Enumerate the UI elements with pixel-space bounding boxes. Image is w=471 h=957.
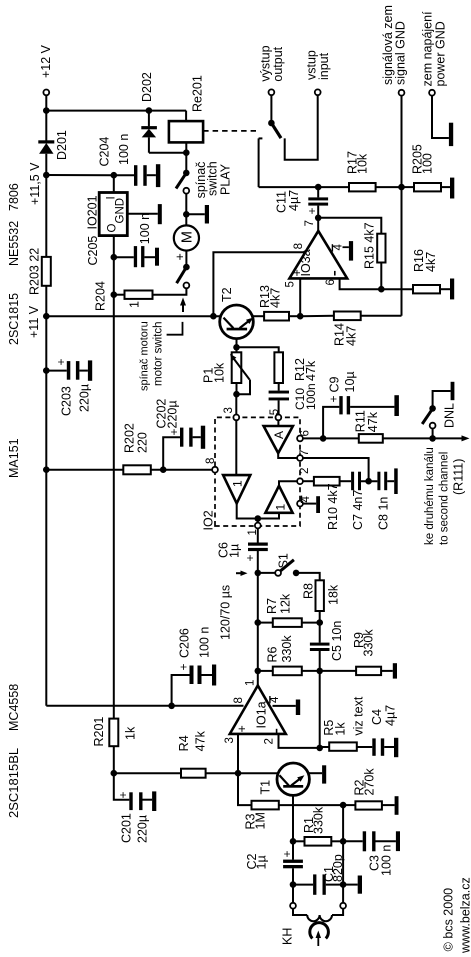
wire rail +11V segment <box>45 286 47 706</box>
junction out/R15fb <box>315 215 322 222</box>
svg-text:R8: R8 <box>302 583 316 599</box>
junction T1 collector node <box>235 770 242 777</box>
terminal vystup output <box>269 89 275 95</box>
svg-text:C8 1n: C8 1n <box>377 497 391 530</box>
resistor R13 <box>264 312 289 321</box>
svg-text:+: + <box>327 395 341 402</box>
ground C9 <box>394 395 399 416</box>
junction rail/R204 <box>111 291 118 298</box>
wire node to PLAY switch <box>185 153 187 173</box>
junction rail/relay feed <box>43 107 50 114</box>
wire node row <box>342 805 344 885</box>
wire R3 to node row <box>279 804 343 806</box>
svg-text:D201: D201 <box>55 130 69 160</box>
junction DNL switch tap <box>429 435 436 442</box>
wire R1 top <box>293 840 305 842</box>
wire IO201 drop <box>46 174 114 176</box>
ground C202 <box>201 426 205 449</box>
junction rail/R202 <box>43 466 50 473</box>
ground PLAY switch <box>186 213 205 215</box>
pointer motor switch label <box>167 322 183 335</box>
junction D202 tap <box>146 107 153 114</box>
svg-text:6: 6 <box>300 430 312 436</box>
capacitor C201 <box>129 792 132 810</box>
wire R202 line <box>46 469 123 471</box>
svg-text:R204: R204 <box>94 281 108 311</box>
svg-text:18k: 18k <box>327 584 341 605</box>
resistor R205 <box>414 183 441 191</box>
junction base/R1 <box>290 838 297 845</box>
switch PLAY lever <box>176 173 186 189</box>
wire +12V terminal to D201 <box>45 95 47 140</box>
svg-text:R4: R4 <box>177 735 191 751</box>
junction pin8/C206 <box>168 703 175 710</box>
wire R205 stubs <box>402 186 415 188</box>
capacitor C206 <box>172 675 190 706</box>
ground C3 <box>396 831 400 851</box>
svg-text:330k: 330k <box>312 806 326 834</box>
resistor R7 <box>273 618 302 627</box>
junction rail/T2 drop <box>43 313 50 320</box>
svg-text:+: + <box>235 725 249 732</box>
inductor KH coil <box>293 909 307 915</box>
junction rail/IO201 drop <box>43 172 50 179</box>
wire switch2 to R204 <box>153 288 187 294</box>
wire node to IO1a pin3 <box>237 734 239 773</box>
diode D202 <box>148 111 150 127</box>
ground node row <box>343 884 358 886</box>
switch S1 contact dot <box>293 570 300 577</box>
resistor R1 <box>305 837 332 846</box>
wire R8 to S1 <box>296 573 320 580</box>
wire 1a out <box>237 503 258 518</box>
wire T1 collector <box>238 772 278 774</box>
wire bias to C201 <box>114 773 130 800</box>
wire T1 emitter <box>309 772 322 774</box>
wire R16 top <box>381 288 413 290</box>
junction node row R2 <box>340 802 347 809</box>
capacitor C11 <box>308 203 328 206</box>
svg-text:R7: R7 <box>265 598 279 614</box>
ground IO2 pin4 <box>303 503 316 505</box>
resistor R4 <box>181 769 206 778</box>
svg-text:+11,5 V: +11,5 V <box>28 162 42 205</box>
svg-text:spínač motoru: spínač motoru <box>139 321 151 391</box>
capacitor C6 <box>248 548 268 551</box>
svg-text:IO2: IO2 <box>202 510 216 530</box>
pin 6 IO2 <box>297 436 303 442</box>
wire T2 collector <box>46 315 220 317</box>
svg-text:+: + <box>290 269 304 276</box>
svg-text:1: 1 <box>247 529 259 535</box>
ground T1 emitter <box>322 765 326 783</box>
resistor R5 <box>329 742 357 750</box>
wire R2 bottom <box>382 804 395 806</box>
resistor R17 <box>349 183 376 191</box>
svg-text:input: input <box>317 52 331 80</box>
junction relay/switch node <box>183 149 190 156</box>
switch motor lever <box>177 267 187 283</box>
wire R6 stubs <box>258 670 273 672</box>
wire output riser <box>259 186 349 188</box>
svg-text:1M: 1M <box>254 812 268 829</box>
wire R10 to C7 <box>340 480 352 482</box>
wire feedback rail <box>319 651 321 748</box>
svg-text:C201: C201 <box>120 813 134 843</box>
svg-text:100 n: 100 n <box>198 627 212 658</box>
svg-text:C5 10n: C5 10n <box>330 621 344 661</box>
IC IO2 dashed box <box>215 417 300 526</box>
wire pin5 to A <box>277 420 279 426</box>
terminal vstup input <box>315 89 321 95</box>
pin 1 IO2 <box>255 523 261 529</box>
svg-text:4k7: 4k7 <box>345 326 359 346</box>
resistor R2 <box>355 801 382 809</box>
potentiometer P1 <box>232 352 242 383</box>
svg-text:C4: C4 <box>370 709 384 725</box>
ground C206 <box>212 665 216 686</box>
terminal signal GND <box>399 90 405 96</box>
wire D202 to switch node <box>149 152 186 154</box>
svg-text:270k: 270k <box>363 768 377 796</box>
relay contact dot <box>268 120 275 127</box>
wire signal gnd rail <box>401 96 403 316</box>
resistor R6 <box>273 667 302 676</box>
wire R13 bottom <box>289 315 300 317</box>
wire S1 to main <box>258 572 275 574</box>
svg-text:C206: C206 <box>178 628 192 658</box>
motor M <box>174 225 199 250</box>
svg-text:220: 220 <box>136 432 150 453</box>
junction T2 line dot A <box>210 313 217 320</box>
wire relay feed from +12V <box>46 110 186 112</box>
svg-text:+: + <box>280 850 294 857</box>
svg-text:1k: 1k <box>334 722 348 736</box>
terminal KH bottom <box>340 903 346 909</box>
arrow DNL line end <box>462 435 470 441</box>
svg-text:R201: R201 <box>92 717 106 747</box>
junction rail/C203 <box>43 367 50 374</box>
svg-text:DNL: DNL <box>443 403 457 428</box>
junction C2/C1 node <box>290 881 297 888</box>
resistor R202 <box>123 465 151 474</box>
junction motor switch dot <box>183 264 190 271</box>
switch S1 open contact <box>275 570 281 576</box>
svg-text:+: + <box>54 358 68 365</box>
svg-text:8: 8 <box>233 697 245 703</box>
svg-text:4µ7: 4µ7 <box>287 190 301 211</box>
svg-text:8: 8 <box>293 243 305 249</box>
wire relay right to feed <box>185 111 187 122</box>
svg-text:1: 1 <box>128 301 142 308</box>
svg-text:10µ: 10µ <box>343 371 357 392</box>
diode D201 <box>38 140 54 143</box>
amp block 1a IO2 <box>223 475 250 503</box>
svg-text:R10 4k7: R10 4k7 <box>326 483 340 530</box>
svg-text:IO201: IO201 <box>86 195 100 229</box>
wire R204 top <box>114 294 125 296</box>
svg-text:100: 100 <box>421 153 435 174</box>
switch DNL contact dot <box>429 405 436 412</box>
junction base/P1/R12 <box>233 344 240 351</box>
junction out node <box>315 184 322 191</box>
wire pin5 line <box>299 278 301 316</box>
junction PLAY gnd node <box>183 211 190 218</box>
amp block A IO2 <box>264 426 293 453</box>
resistor R203 <box>42 257 51 286</box>
svg-text:to second channel: to second channel <box>439 452 451 545</box>
wire IO3a output <box>317 206 319 231</box>
svg-text:10k: 10k <box>213 362 227 383</box>
resistor R16 <box>413 285 440 293</box>
svg-text:GND: GND <box>115 198 127 224</box>
ground C8 <box>387 480 394 482</box>
junction main/C6/S1 <box>254 570 261 577</box>
svg-text:C9: C9 <box>328 376 342 392</box>
ground C205 <box>155 248 159 266</box>
svg-text:12k: 12k <box>279 593 293 614</box>
wire pin7 jog <box>303 458 369 481</box>
resistor R9 wire <box>320 670 356 672</box>
junction 1a/1b/pin1 <box>254 515 261 522</box>
svg-text:C205: C205 <box>86 236 100 266</box>
wire A out <box>278 453 297 458</box>
svg-text:+: + <box>177 663 191 670</box>
svg-text:2SC1815BL: 2SC1815BL <box>6 748 21 818</box>
svg-text:4k7: 4k7 <box>269 288 283 308</box>
svg-text:47k: 47k <box>304 360 318 381</box>
ground R2 <box>395 796 399 815</box>
svg-text:R6: R6 <box>266 646 280 662</box>
wire rail to bias node <box>113 746 115 773</box>
svg-text:+: + <box>167 428 181 435</box>
capacitor C10 <box>278 383 280 391</box>
wire NC contact to input <box>285 95 318 160</box>
transistor T2 <box>220 305 254 339</box>
svg-text:4: 4 <box>269 696 281 703</box>
wire T1 base <box>292 795 294 841</box>
resistor R3 <box>252 801 279 810</box>
junction node row C3 <box>340 838 347 845</box>
wire R12 jog <box>237 347 279 352</box>
svg-text:5: 5 <box>285 281 297 287</box>
wire IO1a output <box>257 551 259 686</box>
capacitor C2 <box>292 841 294 859</box>
junction R202/C202 <box>160 466 167 473</box>
wire R15 to output <box>318 218 381 234</box>
wire R17 bottom <box>376 186 402 188</box>
svg-text:PLAY: PLAY <box>219 163 233 195</box>
svg-text:1: 1 <box>231 480 245 487</box>
wire R4 line bottom <box>206 772 238 774</box>
wire motor to switch2 <box>185 251 187 268</box>
wire R15 left <box>380 263 382 290</box>
op-amp IO3a <box>289 231 347 279</box>
terminal power GND <box>429 90 435 96</box>
svg-text:+: + <box>305 207 319 214</box>
svg-text:R203 22: R203 22 <box>27 248 41 295</box>
junction C204/IO201 input <box>111 172 118 179</box>
junction bias node <box>111 770 118 777</box>
wire IO1a pin2 <box>279 734 320 748</box>
arrow motor-switch link <box>182 303 184 313</box>
capacitor C5 <box>310 648 330 651</box>
ground IO201 gnd pin <box>127 213 158 215</box>
svg-text:motor switch: motor switch <box>153 321 165 386</box>
svg-text:100n: 100n <box>304 383 318 410</box>
ground R9 <box>381 670 393 672</box>
capacitor C1 <box>293 884 313 886</box>
junction C9 tap <box>320 435 327 442</box>
svg-text:7806: 7806 <box>7 183 21 211</box>
svg-text:(R111): (R111) <box>452 459 466 495</box>
svg-text:NE5532: NE5532 <box>7 221 21 266</box>
svg-text:3: 3 <box>223 407 235 413</box>
svg-text:330k: 330k <box>362 629 376 657</box>
svg-text:R202: R202 <box>123 423 137 453</box>
svg-text:3: 3 <box>224 737 236 743</box>
svg-text:O: O <box>107 224 119 233</box>
svg-text:MC4558: MC4558 <box>7 684 21 731</box>
wire IO1a pin8 supply <box>46 705 243 707</box>
junction node row C1 <box>340 881 347 888</box>
junction node B <box>297 313 304 320</box>
svg-text:C204: C204 <box>98 137 112 167</box>
label IO3a minus <box>334 271 336 276</box>
wire R4 line top <box>114 772 181 774</box>
svg-text:S1: S1 <box>277 553 291 568</box>
wire relay left to node <box>185 142 187 152</box>
capacitor C203 <box>67 361 71 380</box>
junction pin7/C7/C8 <box>365 478 372 485</box>
svg-text:100 n: 100 n <box>138 213 152 244</box>
wire into IO201 input <box>113 175 115 192</box>
svg-text:www.belza.cz: www.belza.cz <box>459 877 471 954</box>
svg-text:I: I <box>106 196 118 199</box>
wire KH bottom <box>342 885 344 903</box>
resistor R10 <box>314 477 340 486</box>
relay contact lever <box>271 123 281 138</box>
ground R16 <box>440 288 450 290</box>
svg-text:1: 1 <box>274 504 288 511</box>
resistor R15 <box>377 234 385 263</box>
wire pin3 to 1a <box>235 420 237 475</box>
wire to relay NO contact <box>258 138 260 187</box>
svg-text:zem napájení: zem napájení <box>421 11 435 87</box>
svg-text:1k: 1k <box>124 726 138 740</box>
wire rail +11.5V segment <box>45 154 47 257</box>
svg-text:ke druhému kanálu: ke druhému kanálu <box>424 447 436 545</box>
svg-text:2: 2 <box>299 468 311 474</box>
amp block 1b IO2 <box>265 486 292 513</box>
ground R205 <box>441 186 450 188</box>
ground C201 <box>152 791 156 811</box>
wire pin2 chain top <box>303 480 314 482</box>
capacitor C3 <box>343 840 363 842</box>
wire T2 emitter <box>253 315 264 317</box>
pin 5 IO2 <box>276 415 282 421</box>
junction rail/R17/R205 <box>398 184 405 191</box>
resistor R11 <box>359 434 383 443</box>
svg-text:R15 4k7: R15 4k7 <box>363 222 377 269</box>
pin 8 IO2 <box>212 467 218 473</box>
switch PLAY open contact <box>183 188 189 194</box>
svg-text:M: M <box>179 231 195 243</box>
svg-text:MA151: MA151 <box>7 438 21 478</box>
resistor R204 <box>125 291 153 299</box>
capacitor C202 <box>163 437 180 470</box>
resistor R201 <box>109 719 118 747</box>
svg-text:4µ7: 4µ7 <box>383 705 397 726</box>
regulator IO201 box <box>99 193 127 236</box>
wire to DNL switch <box>432 429 434 439</box>
svg-text:100 n: 100 n <box>117 134 131 165</box>
wire to IO3a pin8 <box>213 252 305 316</box>
transistor T1 <box>277 763 309 795</box>
wire C7 to C8 <box>361 480 377 482</box>
svg-text:+: + <box>116 791 130 798</box>
junction rail/C205 <box>111 254 118 261</box>
svg-text:D202: D202 <box>140 72 154 102</box>
svg-text:T1: T1 <box>259 780 273 795</box>
svg-text:© bcs 2000: © bcs 2000 <box>442 888 456 951</box>
svg-text:220µ: 220µ <box>136 815 150 843</box>
svg-text:1µ: 1µ <box>228 544 242 558</box>
svg-text:7: 7 <box>304 220 316 226</box>
wire KH top <box>292 885 294 903</box>
svg-text:+: + <box>173 253 187 260</box>
capacitor C205 <box>114 256 134 258</box>
relay coil Re201 <box>169 121 203 142</box>
svg-text:power GND: power GND <box>434 21 448 86</box>
wire T2 base <box>236 339 238 348</box>
junction out/R6 <box>254 668 261 675</box>
ground power GND <box>432 96 449 138</box>
wire pin6 jog <box>340 278 382 289</box>
wire R5 to C4 <box>357 746 373 748</box>
svg-text:330k: 330k <box>280 635 294 663</box>
capacitor C4 <box>372 738 375 755</box>
svg-text:+: + <box>243 554 257 561</box>
svg-text:220µ: 220µ <box>166 400 180 428</box>
dashed link relay to contact <box>203 130 256 132</box>
wire R7 stubs <box>258 622 273 624</box>
svg-text:7: 7 <box>299 450 311 456</box>
junction pin2 node <box>316 745 323 752</box>
svg-text:+11 V: +11 V <box>27 305 41 338</box>
pin 4 IO2 <box>297 501 303 507</box>
svg-text:47k: 47k <box>366 411 380 432</box>
wire output terminal <box>270 95 272 123</box>
svg-text:C7 4n7: C7 4n7 <box>351 490 365 530</box>
svg-text:T2: T2 <box>220 287 234 302</box>
wire gnd node to motor <box>185 214 187 225</box>
wire wiper node to pin3 <box>235 394 237 414</box>
svg-text:2: 2 <box>264 738 276 744</box>
svg-text:1µ: 1µ <box>255 855 269 869</box>
wire 1b in <box>258 513 279 519</box>
wire C203 from rail <box>46 370 67 372</box>
resistor R9 <box>356 667 381 675</box>
resistor R8 <box>316 580 324 611</box>
svg-text:switch: switch <box>206 161 220 196</box>
switch DNL open contact <box>430 423 436 429</box>
arrow time constant <box>236 572 242 574</box>
label IO1a minus <box>276 729 278 734</box>
resistor R14 <box>334 312 361 321</box>
svg-text:KH: KH <box>281 928 295 945</box>
svg-text:8: 8 <box>205 458 217 464</box>
